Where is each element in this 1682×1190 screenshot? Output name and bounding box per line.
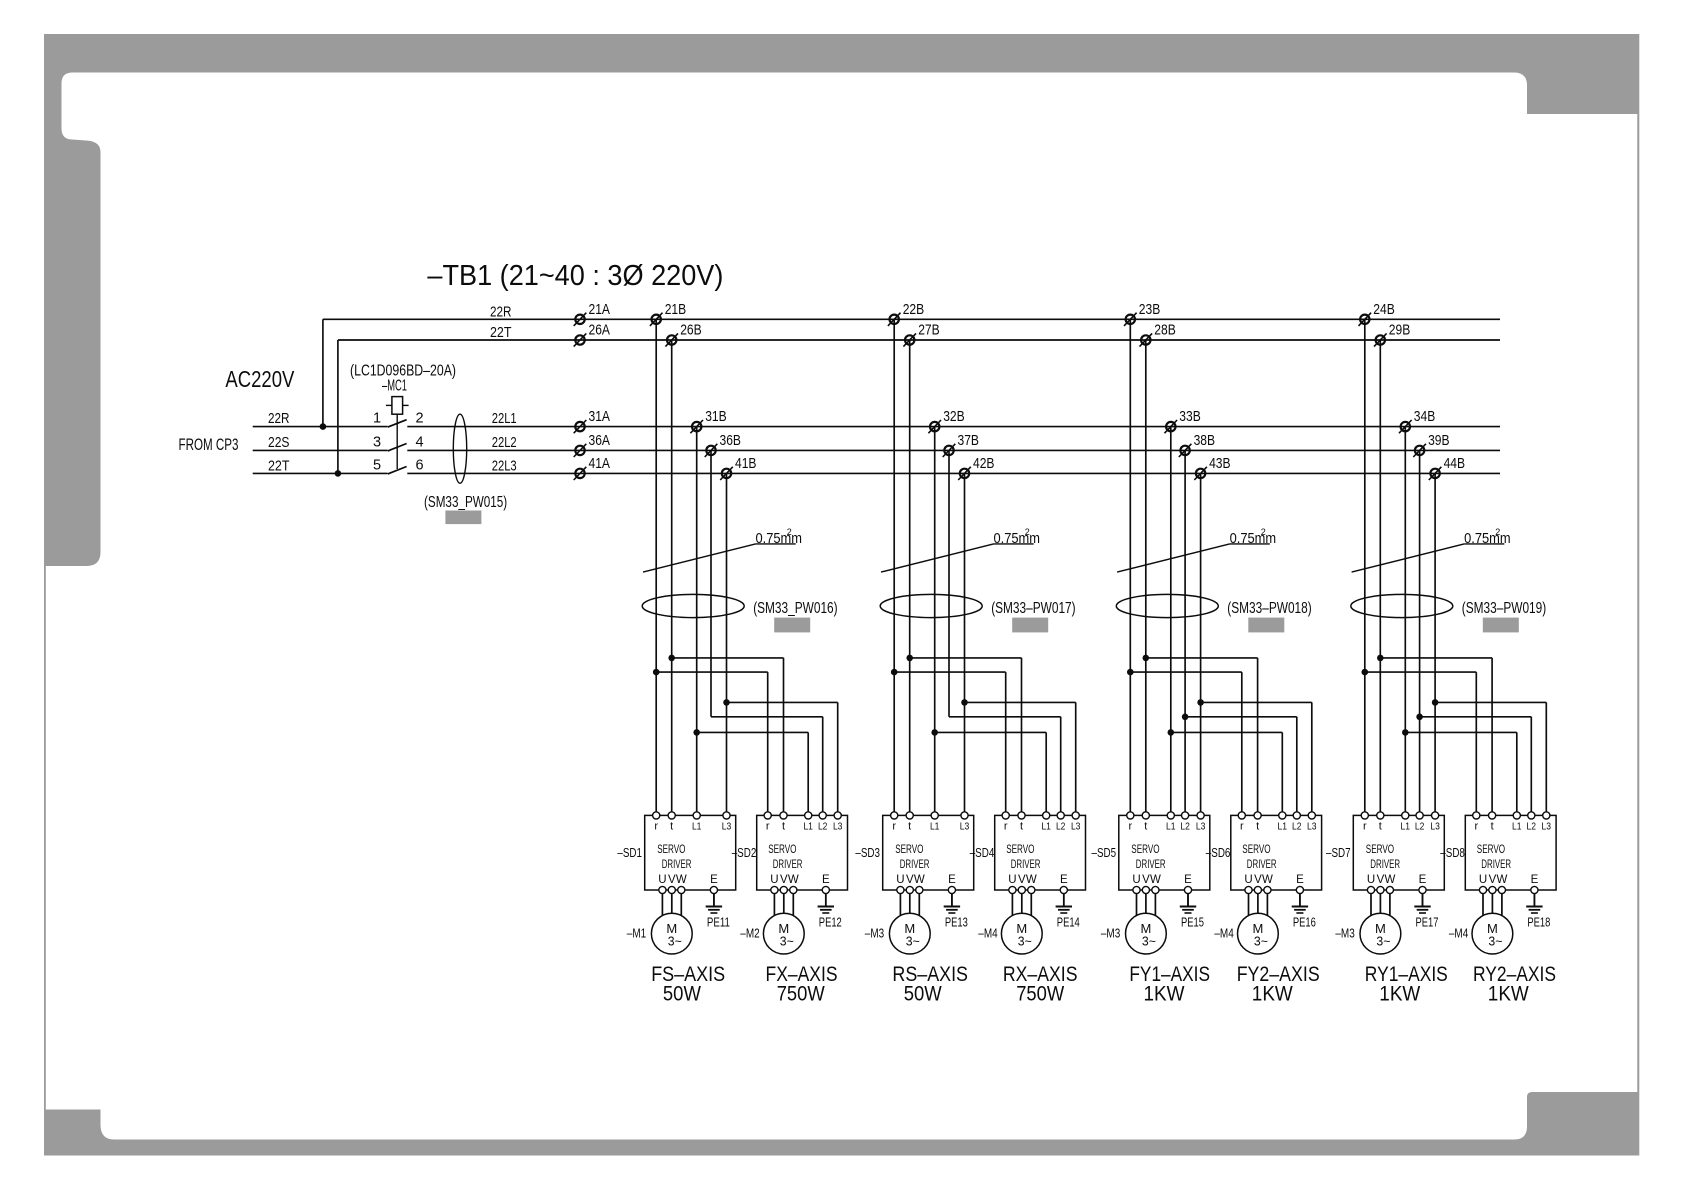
junction t g4: [1377, 655, 1384, 662]
svg-text:E: E: [1060, 874, 1068, 886]
junction r g2: [891, 669, 898, 676]
servo driver SD2 box: [757, 815, 848, 890]
wire L1 drop g4: [1404, 427, 1406, 813]
svg-text:22L3: 22L3: [492, 458, 517, 475]
wire L1 drop g3: [1170, 427, 1172, 813]
ground PE12: [818, 893, 842, 930]
wire L1 drop g2: [934, 427, 936, 813]
svg-text:t: t: [1379, 821, 1382, 833]
svg-text:0.75mm: 0.75mm: [756, 530, 803, 547]
driver SD3 bottom pins: [897, 886, 956, 893]
motor -M3 wires U V W: [1137, 894, 1156, 919]
junction 22T tee: [335, 470, 342, 477]
motor -M4 wires U V W: [1012, 894, 1031, 919]
wire r drop g3: [1129, 319, 1131, 813]
svg-text:U: U: [658, 874, 666, 886]
svg-text:t: t: [1144, 821, 1147, 833]
driver SD6 pin labels: [1240, 821, 1317, 833]
svg-text:44B: 44B: [1444, 455, 1466, 472]
svg-text:W: W: [914, 874, 925, 886]
wire t drop g4: [1379, 340, 1381, 813]
cable tag block g1: [774, 618, 810, 633]
motor -M2: [763, 913, 804, 954]
svg-text:3~: 3~: [1488, 935, 1502, 949]
junction t g3: [1143, 655, 1150, 662]
terminal 41A: [574, 455, 610, 480]
wire L2 drop g1: [710, 450, 712, 716]
cable tag block g3: [1248, 618, 1284, 633]
junction L3 g1: [723, 699, 730, 706]
svg-text:L1: L1: [930, 821, 940, 833]
svg-text:L3: L3: [722, 821, 732, 833]
svg-text:t: t: [1256, 821, 1259, 833]
svg-text:L3: L3: [1196, 821, 1206, 833]
wire E to ground PE17: [1422, 894, 1424, 907]
svg-text:–SD3: –SD3: [855, 846, 880, 860]
svg-text:2: 2: [787, 527, 792, 537]
ground PE11: [706, 893, 730, 930]
svg-text:22R: 22R: [268, 410, 290, 427]
svg-text:3~: 3~: [906, 935, 920, 949]
svg-text:21A: 21A: [589, 301, 611, 318]
svg-text:29B: 29B: [1389, 322, 1411, 339]
terminal 22B: [888, 301, 924, 326]
bus 22L2: [407, 449, 1500, 451]
svg-text:22R: 22R: [490, 303, 512, 320]
wire E to ground PE12: [825, 894, 827, 907]
svg-text:2: 2: [1495, 527, 1500, 537]
servo driver SD3 box: [883, 815, 974, 890]
branch L3 g4: [1435, 701, 1546, 703]
terminal 36A: [574, 432, 610, 457]
terminal 28B: [1140, 322, 1176, 347]
driver SD2 top pins: [764, 812, 841, 819]
svg-text:r: r: [1474, 821, 1478, 833]
svg-text:L3: L3: [1307, 821, 1317, 833]
driver SD2 bottom pins: [771, 886, 830, 893]
driver SD7 bottom pins: [1367, 886, 1426, 893]
svg-text:37B: 37B: [958, 432, 980, 449]
svg-text:1KW: 1KW: [1488, 983, 1529, 1006]
driver SD8 top pins: [1473, 812, 1550, 819]
wire 22R input: [253, 426, 388, 428]
svg-text:V: V: [1489, 874, 1497, 886]
svg-text:3~: 3~: [668, 935, 682, 949]
svg-text:2: 2: [415, 411, 423, 427]
driver SD5 bottom pins: [1133, 886, 1192, 893]
terminal 37B: [943, 432, 979, 457]
svg-text:SERVO: SERVO: [768, 844, 796, 856]
svg-text:(SM33–PW017): (SM33–PW017): [991, 600, 1075, 617]
wire E to ground PE13: [951, 894, 953, 907]
svg-text:–SD2: –SD2: [732, 846, 757, 860]
svg-text:31B: 31B: [705, 408, 727, 425]
driver SD5 pin labels: [1128, 821, 1205, 833]
svg-text:L2: L2: [1415, 821, 1425, 833]
svg-text:26A: 26A: [589, 322, 611, 339]
branch r g1: [656, 671, 768, 673]
svg-text:L1: L1: [1401, 821, 1411, 833]
svg-text:–M4: –M4: [1214, 927, 1233, 941]
driver SD7 U V W E labels: [1367, 874, 1427, 886]
wire L2 drop g2: [948, 450, 950, 716]
svg-text:L3: L3: [960, 821, 970, 833]
svg-text:28B: 28B: [1154, 322, 1176, 339]
svg-text:PE17: PE17: [1416, 916, 1439, 930]
svg-text:22B: 22B: [903, 301, 925, 318]
junction r g1: [653, 669, 660, 676]
wire t drop g2: [909, 340, 911, 813]
contactor MC1 pole 1-2 blade: [388, 420, 407, 427]
terminal 21A: [574, 301, 610, 326]
motor -M3: [1126, 913, 1167, 954]
svg-text:V: V: [780, 874, 788, 886]
svg-text:–M4: –M4: [978, 927, 997, 941]
svg-text:U: U: [1132, 874, 1140, 886]
wire L3 drop g1: [726, 473, 728, 812]
wire 22T tee vertical: [337, 340, 339, 473]
motor -M4: [1238, 913, 1279, 954]
svg-text:–SD7: –SD7: [1326, 846, 1351, 860]
svg-text:PE14: PE14: [1057, 916, 1080, 930]
terminal 39B: [1413, 432, 1449, 457]
svg-text:r: r: [766, 821, 770, 833]
junction L2 g4: [1416, 714, 1423, 721]
branch t g2: [910, 657, 1022, 659]
svg-text:0.75mm: 0.75mm: [994, 530, 1041, 547]
bus 22T: [338, 339, 1500, 341]
ground PE13: [944, 893, 968, 930]
svg-text:3~: 3~: [780, 935, 794, 949]
svg-text:50W: 50W: [663, 983, 701, 1006]
driver SD5 top pins: [1127, 812, 1204, 819]
junction L3 g4: [1432, 699, 1439, 706]
svg-text:L3: L3: [1542, 821, 1552, 833]
svg-text:PE16: PE16: [1293, 916, 1316, 930]
svg-text:DRIVER: DRIVER: [1136, 859, 1166, 871]
terminal 26B: [665, 322, 701, 347]
terminal 27B: [903, 322, 939, 347]
wire E to ground PE11: [713, 894, 715, 907]
svg-text:31A: 31A: [589, 408, 611, 425]
terminal 43B: [1194, 455, 1230, 480]
svg-text:E: E: [1296, 874, 1304, 886]
driver SD7 pin labels: [1363, 821, 1440, 833]
svg-text:L2: L2: [1527, 821, 1537, 833]
junction r g3: [1127, 669, 1134, 676]
terminal 24B: [1359, 301, 1395, 326]
wire L2 drop g3: [1184, 450, 1186, 812]
svg-text:1KW: 1KW: [1144, 983, 1185, 1006]
junction L1 g1: [693, 729, 700, 736]
junction L1 g3: [1168, 729, 1175, 736]
svg-text:L2: L2: [1056, 821, 1066, 833]
wire L1 drop g1: [696, 427, 698, 813]
svg-text:0.75mm: 0.75mm: [1464, 530, 1511, 547]
svg-text:1: 1: [373, 411, 381, 427]
svg-text:AC220V: AC220V: [225, 366, 295, 392]
svg-text:V: V: [1377, 874, 1385, 886]
svg-text:V: V: [906, 874, 914, 886]
svg-text:3~: 3~: [1018, 935, 1032, 949]
ground PE15: [1180, 893, 1204, 930]
terminal 34B: [1399, 408, 1435, 433]
svg-text:PE11: PE11: [707, 916, 730, 930]
branch L1 g4: [1405, 731, 1517, 733]
svg-text:r: r: [1240, 821, 1244, 833]
branch L1 g1: [697, 731, 809, 733]
junction 22R tee: [320, 423, 327, 430]
svg-text:33B: 33B: [1179, 408, 1201, 425]
branch L3 g1: [727, 701, 838, 703]
terminal 41B: [720, 455, 756, 480]
svg-text:L3: L3: [833, 821, 843, 833]
svg-text:SERVO: SERVO: [1242, 844, 1270, 856]
svg-text:50W: 50W: [904, 983, 942, 1006]
svg-text:–SD1: –SD1: [617, 846, 642, 860]
branch r g3: [1130, 671, 1242, 673]
svg-text:t: t: [782, 821, 785, 833]
branch L2 g4: [1420, 716, 1532, 718]
svg-text:E: E: [822, 874, 830, 886]
svg-text:43B: 43B: [1209, 455, 1231, 472]
contactor linkage: [396, 414, 398, 469]
wire r drop g4: [1364, 319, 1366, 813]
ground PE18: [1526, 893, 1550, 930]
servo driver SD6 box: [1231, 815, 1322, 890]
svg-text:L2: L2: [1292, 821, 1302, 833]
svg-text:36B: 36B: [720, 432, 742, 449]
svg-text:V: V: [1142, 874, 1150, 886]
terminal 38B: [1179, 432, 1215, 457]
svg-text:r: r: [1128, 821, 1132, 833]
ground PE16: [1292, 893, 1316, 930]
driver SD2 pin labels: [766, 821, 843, 833]
driver SD1 top pins: [653, 812, 731, 819]
servo driver SD4 box: [995, 815, 1086, 890]
wire 22R tee vertical: [322, 319, 324, 426]
motor -M4: [1472, 913, 1513, 954]
wire t drop g1: [671, 340, 673, 813]
cable marker (SM33-PW018) oval: [1116, 594, 1218, 617]
svg-text:(SM33_PW015): (SM33_PW015): [424, 494, 507, 511]
terminal 31A: [574, 408, 610, 433]
wire t drop g3: [1145, 340, 1147, 813]
terminal 21B: [650, 301, 686, 326]
svg-text:U: U: [770, 874, 778, 886]
svg-text:2: 2: [1261, 527, 1266, 537]
svg-text:SERVO: SERVO: [1131, 844, 1159, 856]
svg-text:r: r: [892, 821, 896, 833]
svg-text:23B: 23B: [1139, 301, 1161, 318]
svg-text:–M3: –M3: [865, 927, 884, 941]
wire r drop g2: [893, 319, 895, 813]
branch t g3: [1146, 657, 1258, 659]
motor -M4 wires U V W: [1249, 894, 1268, 919]
svg-text:SERVO: SERVO: [657, 844, 685, 856]
svg-text:41B: 41B: [735, 455, 757, 472]
svg-text:21B: 21B: [665, 301, 687, 318]
terminal 29B: [1374, 322, 1410, 347]
cable marker (SM33_PW016) oval: [642, 594, 744, 617]
motor -M3: [889, 913, 930, 954]
svg-text:U: U: [1008, 874, 1016, 886]
driver SD8 pin labels: [1474, 821, 1551, 833]
junction L1 g2: [931, 729, 938, 736]
driver SD4 top pins: [1002, 812, 1079, 819]
svg-text:W: W: [788, 874, 799, 886]
junction L1 g4: [1402, 729, 1409, 736]
driver SD1 U V W E labels: [658, 874, 718, 886]
wire 22S input: [253, 449, 388, 451]
svg-text:3~: 3~: [1376, 935, 1390, 949]
terminal 42B: [958, 455, 994, 480]
motor -M3: [1360, 913, 1401, 954]
svg-text:t: t: [1020, 821, 1023, 833]
svg-text:W: W: [1150, 874, 1161, 886]
junction L3 g2: [961, 699, 968, 706]
motor -M2 wires U V W: [774, 894, 793, 919]
wire size leader g3: [1117, 544, 1230, 572]
svg-text:32B: 32B: [943, 408, 965, 425]
terminal 36B: [705, 432, 741, 457]
svg-text:L1: L1: [803, 821, 813, 833]
cable marker SM33_PW015: [453, 414, 466, 483]
svg-text:1KW: 1KW: [1252, 983, 1293, 1006]
svg-text:W: W: [1496, 874, 1507, 886]
motor -M3 wires U V W: [1371, 894, 1390, 919]
driver SD8 bottom pins: [1479, 886, 1538, 893]
wire E to ground PE14: [1063, 894, 1065, 907]
svg-text:22L2: 22L2: [492, 434, 517, 451]
junction L3 g3: [1197, 699, 1204, 706]
svg-text:t: t: [908, 821, 911, 833]
junction r g4: [1362, 669, 1369, 676]
svg-text:2: 2: [1025, 527, 1030, 537]
branch r g2: [894, 671, 1006, 673]
branch L1 g3: [1171, 731, 1283, 733]
branch L2 g1: [711, 716, 823, 718]
svg-text:FROM CP3: FROM CP3: [179, 435, 239, 454]
svg-text:22S: 22S: [268, 434, 290, 451]
driver SD1 pin labels: [654, 821, 731, 833]
branch t g4: [1380, 657, 1492, 659]
cable marker (SM33-PW017) oval: [880, 594, 982, 617]
wire size leader g1: [643, 544, 756, 572]
driver SD7 top pins: [1361, 812, 1438, 819]
svg-text:–M4: –M4: [1449, 927, 1468, 941]
svg-text:750W: 750W: [1016, 983, 1064, 1006]
svg-text:E: E: [1419, 874, 1427, 886]
svg-text:W: W: [1384, 874, 1395, 886]
branch L2 g2: [949, 716, 1061, 718]
contactor MC1 coil box: [392, 397, 403, 415]
svg-text:22L1: 22L1: [492, 410, 517, 427]
svg-text:–SD8: –SD8: [1440, 846, 1465, 860]
svg-text:27B: 27B: [918, 322, 940, 339]
bus 22L1: [407, 426, 1500, 428]
servo driver SD7 box: [1353, 815, 1444, 890]
svg-text:E: E: [710, 874, 718, 886]
wire r drop g1: [655, 319, 657, 813]
terminal 44B: [1429, 455, 1465, 480]
svg-text:SERVO: SERVO: [1477, 844, 1505, 856]
ground PE14: [1056, 893, 1080, 930]
svg-text:–MC1: –MC1: [382, 378, 407, 395]
svg-text:SERVO: SERVO: [1366, 844, 1394, 856]
svg-text:SERVO: SERVO: [1006, 844, 1034, 856]
servo driver SD5 box: [1119, 815, 1210, 890]
svg-text:E: E: [1184, 874, 1192, 886]
wire E to ground PE16: [1299, 894, 1301, 907]
wire L3 drop g2: [964, 473, 966, 812]
svg-text:E: E: [1531, 874, 1539, 886]
svg-text:DRIVER: DRIVER: [900, 859, 930, 871]
wire size leader g2: [881, 544, 994, 572]
svg-text:4: 4: [415, 434, 423, 450]
bus 22L3: [407, 472, 1500, 474]
branch L1 g2: [935, 731, 1046, 733]
svg-text:3~: 3~: [1142, 935, 1156, 949]
coil stub left: [386, 404, 392, 406]
svg-text:PE15: PE15: [1181, 916, 1204, 930]
junction t g2: [906, 655, 913, 662]
svg-text:39B: 39B: [1428, 432, 1450, 449]
terminal 33B: [1165, 408, 1201, 433]
svg-text:r: r: [1363, 821, 1367, 833]
contactor MC1 pole 5-6 blade: [388, 467, 407, 474]
contactor MC1 pole 3-4 blade: [388, 444, 407, 451]
svg-text:–SD4: –SD4: [970, 846, 995, 860]
driver SD4 bottom pins: [1009, 886, 1068, 893]
svg-text:V: V: [668, 874, 676, 886]
svg-text:DRIVER: DRIVER: [662, 859, 692, 871]
svg-text:42B: 42B: [973, 455, 995, 472]
svg-text:L1: L1: [1512, 821, 1522, 833]
svg-text:W: W: [1026, 874, 1037, 886]
svg-text:24B: 24B: [1373, 301, 1395, 318]
branch r g4: [1365, 671, 1477, 673]
branch t g1: [672, 657, 784, 659]
svg-text:PE12: PE12: [819, 916, 842, 930]
svg-text:–TB1 (21~40 : 3Ø 220V): –TB1 (21~40 : 3Ø 220V): [427, 260, 723, 292]
svg-text:1KW: 1KW: [1379, 983, 1420, 1006]
wire E to ground PE15: [1187, 894, 1189, 907]
svg-text:L1: L1: [692, 821, 702, 833]
terminal 26A: [574, 322, 610, 347]
svg-text:r: r: [654, 821, 658, 833]
svg-text:(SM33_PW016): (SM33_PW016): [753, 600, 837, 617]
svg-text:L3: L3: [1430, 821, 1440, 833]
driver SD8 U V W E labels: [1479, 874, 1539, 886]
svg-text:41A: 41A: [589, 455, 611, 472]
wire L2 drop g4: [1419, 450, 1421, 812]
coil stub right: [403, 404, 409, 406]
cable tag block g2: [1012, 618, 1048, 633]
driver SD6 top pins: [1238, 812, 1315, 819]
svg-text:22T: 22T: [490, 324, 512, 341]
svg-text:750W: 750W: [777, 983, 825, 1006]
svg-text:U: U: [896, 874, 904, 886]
svg-text:t: t: [670, 821, 673, 833]
svg-text:DRIVER: DRIVER: [1247, 859, 1277, 871]
branch L3 g3: [1201, 701, 1312, 703]
motor -M1: [651, 913, 692, 954]
svg-text:26B: 26B: [680, 322, 702, 339]
motor -M4 wires U V W: [1483, 894, 1502, 919]
driver SD6 bottom pins: [1245, 886, 1304, 893]
driver SD5 U V W E labels: [1132, 874, 1192, 886]
